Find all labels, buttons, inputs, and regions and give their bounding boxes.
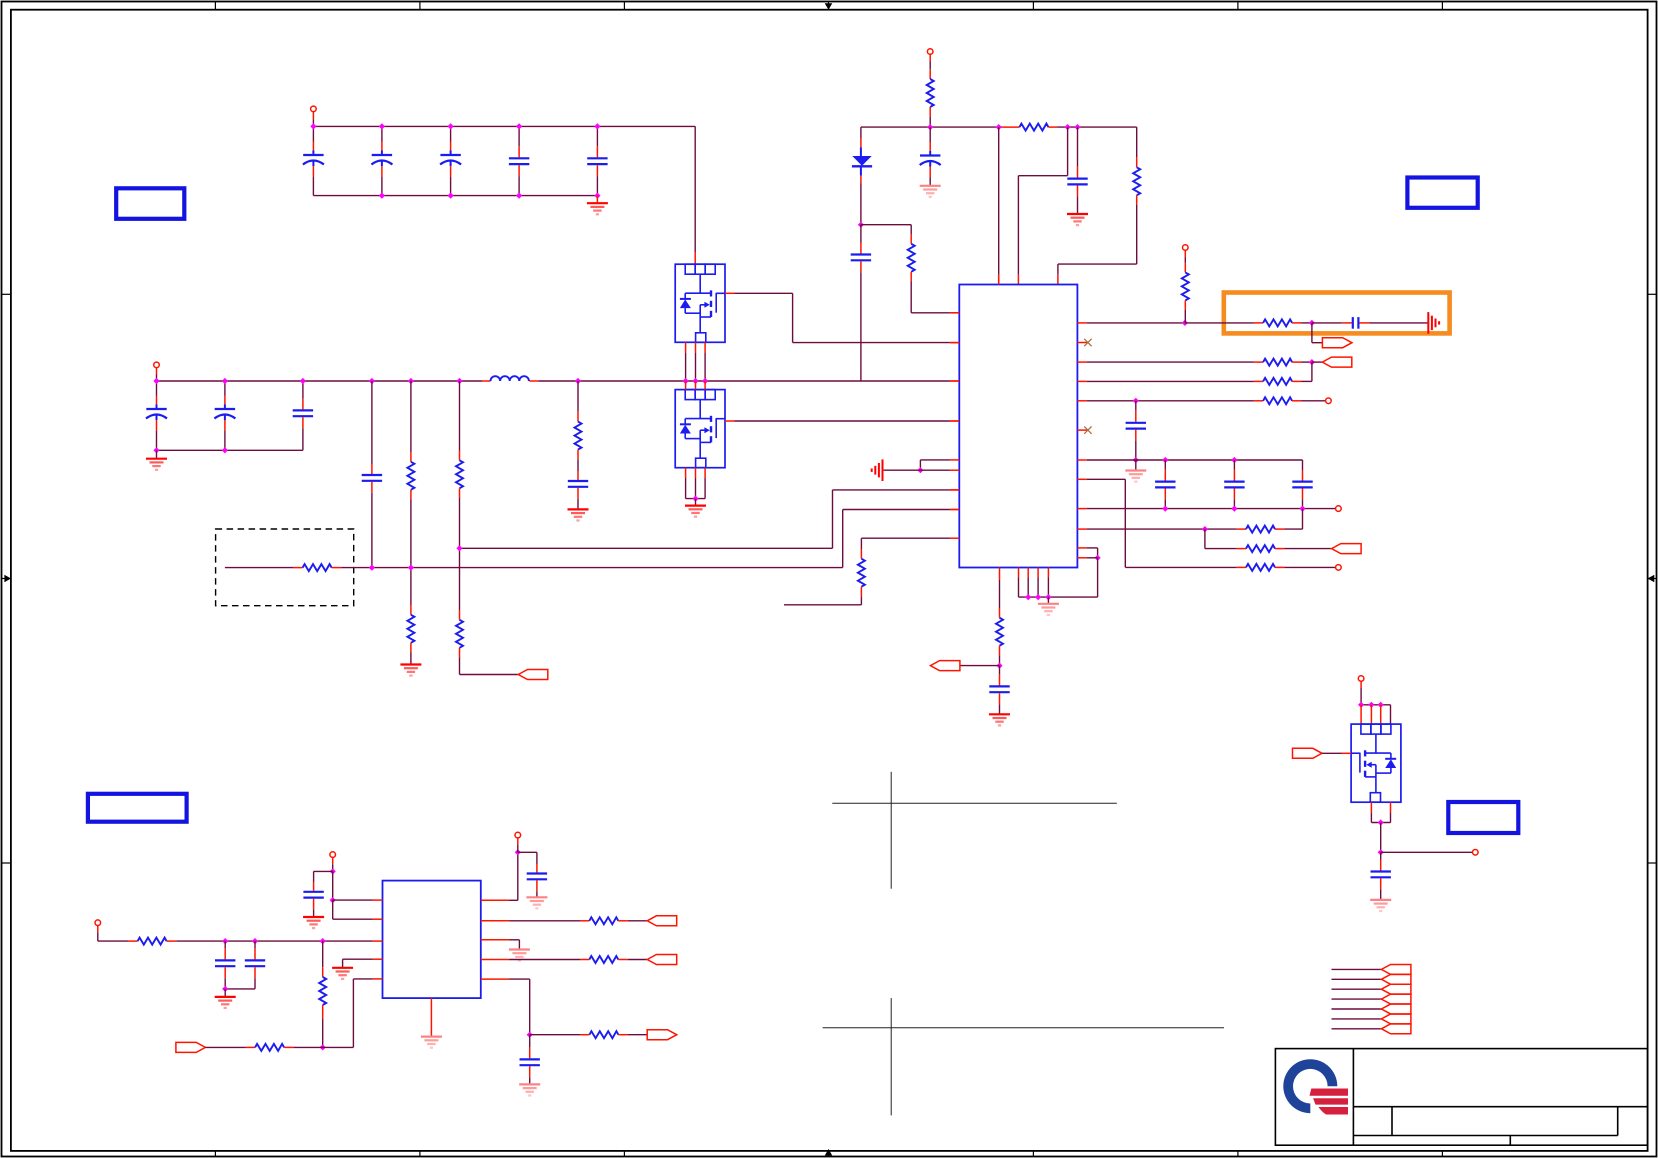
signal ground (872, 459, 883, 481)
wire (1097, 558, 1099, 597)
terminal P10 (515, 832, 521, 838)
wire (1312, 361, 1322, 363)
wire (580, 1034, 589, 1036)
wire (371, 381, 373, 464)
wire (224, 989, 226, 997)
wire (860, 587, 862, 597)
junction (1065, 124, 1071, 130)
junction (1378, 702, 1384, 708)
capacitor C22 (245, 941, 265, 989)
terminal P1 (311, 106, 317, 112)
wire (1302, 361, 1312, 363)
junction (1162, 457, 1168, 463)
wire (176, 940, 373, 942)
junction (692, 496, 698, 502)
pin U1 (950, 312, 959, 314)
wire (628, 1034, 647, 1036)
wire gate Q2 (725, 420, 735, 422)
wire (459, 658, 461, 675)
ground (303, 917, 324, 928)
resistor R12 (1263, 319, 1292, 326)
wire (950, 380, 959, 382)
capacitor C2 (371, 142, 392, 196)
wire VIN bus (313, 125, 695, 127)
wire (332, 567, 342, 569)
pin U2 (373, 958, 383, 960)
pin Q2 drain (704, 381, 706, 390)
wire (529, 979, 531, 1035)
capacitor C25 (1371, 852, 1391, 899)
terminal P8 (330, 852, 336, 858)
junction (222, 986, 228, 992)
capacitor C12 (920, 127, 941, 183)
capacitor C11 (851, 225, 871, 381)
ground (509, 950, 530, 961)
capacitor C16 (1155, 460, 1175, 509)
wire (1390, 705, 1392, 724)
wire (225, 988, 255, 990)
pin U1 (1077, 478, 1087, 480)
pin U2 (481, 939, 509, 941)
junction (594, 193, 600, 199)
wire filter bottom (157, 449, 303, 451)
junction (1035, 594, 1041, 600)
wire (1184, 300, 1186, 310)
wire (1237, 528, 1246, 530)
wire (999, 608, 1001, 618)
wire (322, 941, 324, 967)
ground (1370, 900, 1391, 911)
junction (448, 123, 454, 129)
wire (1087, 322, 1185, 324)
diode D1 (852, 138, 872, 184)
junction (1358, 702, 1364, 708)
capacitor C19 (989, 666, 1009, 714)
terminal P4 (1183, 245, 1189, 251)
pin U1 (1077, 342, 1087, 344)
wire (1087, 478, 1125, 480)
resistor R8 (1019, 124, 1048, 131)
wire (920, 459, 950, 461)
wire (1017, 275, 1019, 285)
label box (1448, 802, 1518, 833)
wire (312, 126, 314, 141)
wire (910, 272, 912, 282)
crosshair (832, 772, 1117, 889)
wire (577, 501, 579, 510)
resistor R25 (589, 956, 618, 963)
pin U1 (1077, 380, 1087, 382)
wire (577, 412, 579, 422)
pin U1 (950, 537, 959, 539)
wire (618, 920, 628, 922)
wire (1292, 322, 1301, 324)
wire (1017, 176, 1019, 275)
port OUT1 (518, 670, 548, 680)
resistor R24 (589, 917, 618, 924)
port SETIN (176, 1042, 206, 1052)
wire (1087, 557, 1098, 559)
pin U2 (373, 940, 383, 942)
terminal P2 (154, 362, 160, 368)
wire (459, 648, 461, 658)
pin U1 (1018, 568, 1020, 578)
wire (577, 450, 579, 460)
wire (596, 196, 598, 203)
wire (342, 959, 344, 967)
junction (1133, 398, 1139, 404)
wire (410, 500, 412, 568)
pin U1 (1037, 568, 1039, 578)
junction (222, 378, 228, 384)
wire (1087, 508, 1336, 510)
wire (1124, 479, 1126, 567)
port OUT4 (647, 1030, 677, 1040)
wire (1371, 822, 1390, 824)
crosshair (823, 998, 1224, 1115)
ground (989, 714, 1010, 725)
wire (1237, 566, 1246, 568)
wire (205, 1046, 246, 1048)
wire (998, 127, 1000, 275)
pin U1 (1077, 547, 1087, 549)
pin U1 (950, 489, 959, 491)
capacitor C6 (146, 381, 167, 450)
label box (88, 794, 187, 822)
capacitor C4 (509, 142, 529, 196)
wire (843, 509, 950, 511)
wire (156, 368, 158, 375)
wire (1135, 460, 1137, 470)
wire (999, 646, 1001, 656)
pin U2 (373, 978, 383, 980)
wire (482, 380, 491, 382)
terminal P6 (1336, 565, 1342, 571)
pin Q1 source (695, 342, 697, 353)
pin Q2 source (704, 468, 706, 478)
ground (215, 997, 236, 1008)
junction (1309, 359, 1315, 365)
wire (410, 568, 412, 605)
junction (1309, 320, 1315, 326)
wire (1275, 566, 1284, 568)
wire (459, 381, 461, 451)
wire (1087, 400, 1254, 402)
wire (1302, 380, 1312, 382)
wire (793, 342, 950, 344)
wire (1087, 380, 1254, 382)
wire (910, 282, 912, 313)
wire (618, 1034, 628, 1036)
controller U1 (959, 285, 1077, 568)
wire (1057, 126, 1137, 128)
resistor R6 (303, 564, 332, 571)
wire (1360, 681, 1362, 688)
wire (98, 940, 128, 942)
pin U1 (1077, 400, 1087, 402)
port CTRL3 (1332, 544, 1362, 554)
transistor Q3 (1351, 724, 1401, 802)
wire (860, 538, 862, 549)
wire (1097, 548, 1099, 558)
junction (1074, 124, 1080, 130)
pin Q2 source (695, 468, 697, 478)
ground (1067, 214, 1088, 225)
junction (369, 565, 375, 571)
wire (1381, 851, 1473, 853)
wire (225, 567, 293, 569)
wire (833, 489, 950, 491)
wire (1380, 823, 1382, 853)
wire (341, 567, 843, 569)
wire (97, 926, 99, 933)
wire (950, 509, 959, 511)
wire (832, 490, 834, 548)
wire (314, 870, 333, 872)
junction (996, 124, 1002, 130)
wire (628, 920, 647, 922)
pin U1 (1077, 528, 1087, 530)
ground (1125, 471, 1146, 482)
ground (920, 186, 941, 197)
dashed option box (216, 529, 354, 606)
wire (792, 293, 794, 342)
junction (1299, 506, 1305, 512)
wire (910, 225, 912, 234)
pin U2 (430, 998, 432, 1036)
wire (686, 498, 706, 500)
wire (998, 275, 1000, 285)
resistor R26 (589, 1031, 618, 1038)
wire (1047, 597, 1049, 604)
wire (343, 958, 373, 960)
pin U1 (1077, 459, 1087, 461)
wire (950, 420, 959, 422)
resistor R13 (1182, 272, 1189, 300)
pin Q3 (1370, 705, 1372, 724)
capacitor C21 (215, 941, 235, 989)
capacitor C14 (1312, 317, 1372, 329)
wire (1254, 400, 1263, 402)
resistor R14 (1263, 359, 1292, 366)
wire (509, 959, 580, 961)
ground (519, 1084, 540, 1095)
wire (536, 852, 538, 864)
label box (1407, 178, 1477, 208)
wire (842, 510, 844, 568)
no-connect (1084, 339, 1091, 346)
wire (167, 940, 177, 942)
wire (911, 312, 950, 314)
junction (516, 123, 522, 129)
junction (1095, 555, 1101, 561)
wire (860, 184, 862, 225)
capacitor C9 (362, 464, 382, 494)
wire (580, 920, 589, 922)
wire (1087, 547, 1098, 549)
wire (1087, 361, 1254, 363)
pin U1 (1077, 557, 1087, 559)
terminal P3 (927, 49, 933, 55)
ground (568, 509, 589, 520)
wire (1284, 566, 1335, 568)
label box (116, 188, 184, 219)
junction (1045, 594, 1051, 600)
wire (1185, 322, 1254, 324)
wire (1254, 380, 1263, 382)
wire (333, 918, 373, 920)
wire (1048, 126, 1057, 128)
junction (1368, 702, 1374, 708)
wire (999, 580, 1001, 608)
wire (410, 605, 412, 615)
wire (695, 499, 697, 506)
signal ground (1428, 312, 1439, 334)
port CTRL2 (1322, 357, 1352, 367)
junction (1231, 457, 1237, 463)
wire (860, 127, 862, 138)
wire (1205, 548, 1237, 550)
wire (884, 469, 950, 471)
wire (1136, 157, 1138, 167)
pin U1 (950, 509, 959, 511)
junction (310, 123, 316, 129)
wire (1254, 361, 1263, 363)
wire (861, 224, 911, 226)
wire (1292, 400, 1301, 402)
transistor Q1 (675, 264, 725, 342)
wire (919, 460, 921, 470)
junction (320, 1044, 326, 1050)
resistor R10 (1133, 167, 1140, 195)
wire (1311, 362, 1313, 381)
terminal P12 (1473, 850, 1479, 856)
inductor L1 (491, 376, 529, 381)
capacitor C17 (1224, 460, 1244, 509)
resistor R19 (1246, 545, 1275, 552)
ground (587, 203, 608, 214)
wire (950, 489, 959, 491)
pin U1 (998, 275, 1000, 285)
pin U1 (999, 568, 1001, 581)
pin U1 (950, 380, 959, 382)
wire (410, 653, 412, 665)
junction (527, 1032, 533, 1038)
wire gate Q1 (725, 292, 735, 294)
wire (950, 342, 959, 344)
resistor R23 (255, 1044, 284, 1051)
wire (459, 610, 461, 620)
junction (456, 378, 462, 384)
wire (1136, 127, 1138, 157)
wire (509, 899, 518, 901)
pin U1 (1077, 429, 1087, 431)
pin U1 (1077, 322, 1087, 324)
ground (146, 459, 167, 470)
junction (1202, 526, 1208, 532)
resistor R7 (927, 79, 934, 107)
wire (1302, 400, 1326, 402)
wire (518, 851, 537, 853)
ground (685, 506, 706, 517)
capacitor C20 (303, 882, 323, 917)
wire (156, 450, 158, 458)
wire (1254, 322, 1263, 324)
wire (1292, 380, 1301, 382)
wire (1284, 528, 1302, 530)
pin U1 (1077, 361, 1087, 363)
ground (526, 897, 547, 908)
resistor R5 (575, 422, 582, 450)
wire stub (784, 604, 861, 606)
ground (332, 968, 353, 979)
resistor R3 (456, 460, 463, 488)
resistor R4 (456, 620, 463, 648)
junction (515, 849, 521, 855)
wire (618, 959, 628, 961)
wire (950, 312, 959, 314)
wire (410, 490, 412, 500)
wire (860, 596, 862, 604)
wire (1057, 264, 1059, 275)
wire (517, 838, 519, 845)
wire (1322, 752, 1342, 754)
wire (246, 1046, 255, 1048)
capacitor C1 (303, 142, 324, 196)
pin Q1 source (704, 342, 706, 353)
junction (1231, 506, 1237, 512)
wire (293, 567, 303, 569)
pin Q3 (1370, 802, 1372, 813)
wire (1275, 528, 1284, 530)
wire (1019, 596, 1098, 598)
pin Q1 source (685, 342, 687, 353)
wire (1057, 275, 1059, 285)
junction (448, 193, 454, 199)
wire (322, 1019, 324, 1047)
capacitor C5 (587, 142, 607, 196)
resistor R17 (1246, 564, 1275, 571)
wire (529, 380, 538, 382)
terminal P5 (1326, 398, 1332, 404)
wire (1237, 548, 1246, 550)
wire (1312, 342, 1322, 344)
wire (1018, 175, 1067, 177)
junction (1162, 506, 1168, 512)
resistor R18 (1246, 526, 1275, 533)
wire (333, 899, 373, 901)
ground (1038, 604, 1059, 615)
junction (153, 378, 159, 384)
wire to Q1 drain (694, 126, 696, 252)
wire (352, 979, 354, 1048)
wire (459, 488, 461, 498)
terminal P11 (1358, 676, 1364, 682)
regulator U2 (383, 881, 481, 999)
wire (628, 959, 647, 961)
junction (222, 938, 228, 944)
pin Q3 (1380, 705, 1382, 724)
wire (1087, 528, 1237, 530)
junction (1378, 819, 1384, 825)
wire (322, 1005, 324, 1019)
junction (408, 565, 414, 571)
wire (517, 852, 519, 900)
junction (702, 378, 708, 384)
wire (313, 871, 315, 881)
wire (1302, 322, 1312, 324)
junction (683, 378, 689, 384)
